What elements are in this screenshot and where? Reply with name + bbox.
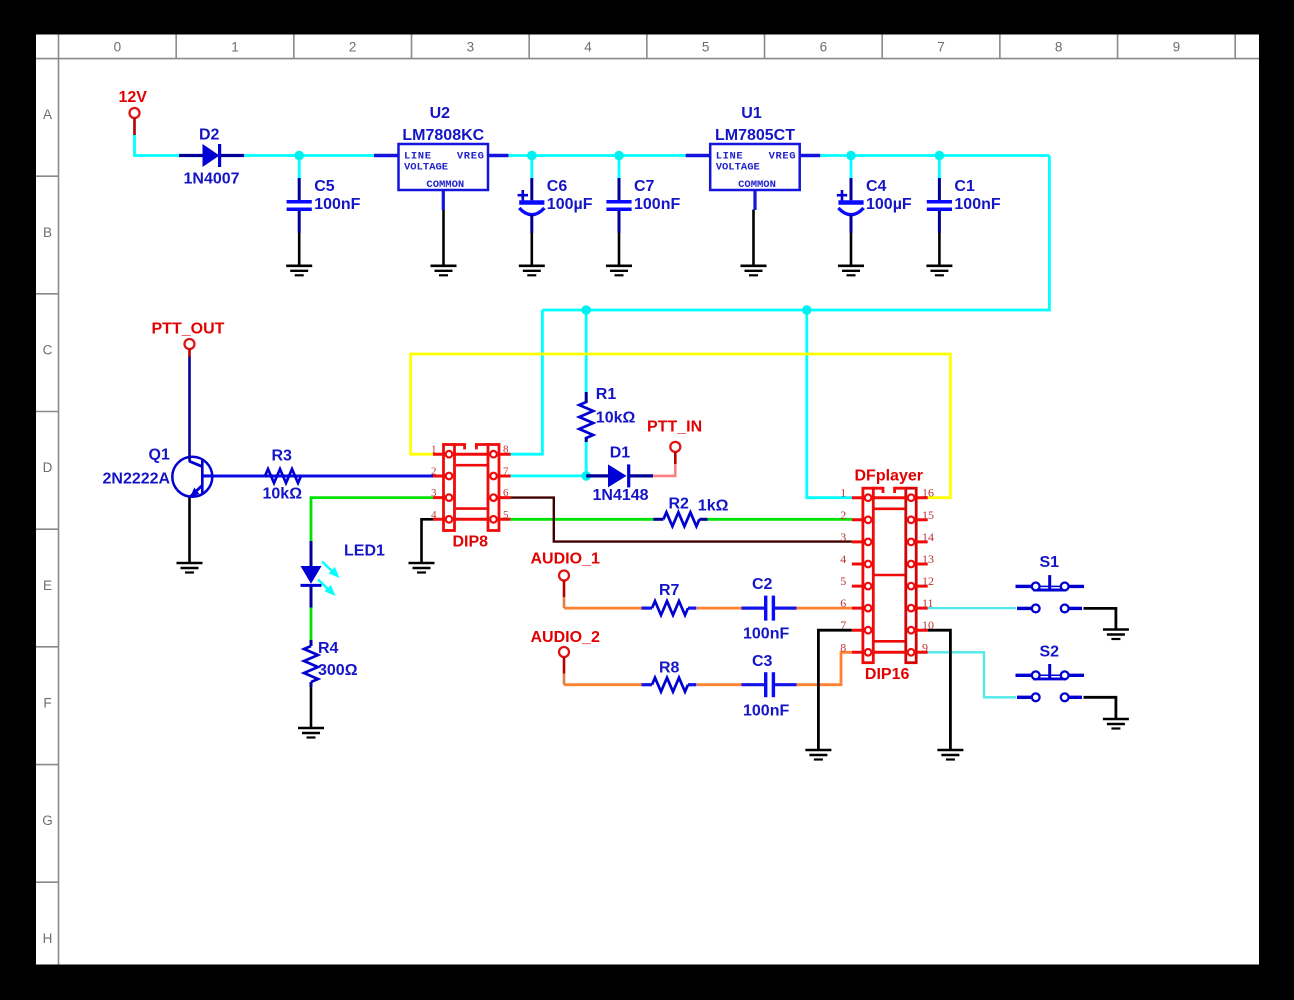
svg-text:2: 2 (431, 466, 437, 478)
terminal PTT_IN (670, 442, 680, 452)
svg-text:1: 1 (840, 486, 846, 500)
AUDIO_1 terminal lead (563, 581, 566, 598)
terminal AUDIO_2 (559, 647, 569, 657)
svg-text:PTT_IN: PTT_IN (647, 419, 702, 436)
wire DIP8 pin4 to ground (black) (422, 519, 434, 563)
PTT_OUT terminal lead (188, 349, 191, 357)
wire C6 to ground (black) (530, 233, 533, 266)
resistor R4 leads (310, 640, 313, 646)
DIP8 pin 2 lead (433, 475, 450, 478)
wire PTT_IN drop (salmon) (653, 463, 675, 476)
wire DFplayer pin 9 to S2 (light cyan) (928, 652, 1016, 697)
junction DFplayer pin1 drop node (802, 305, 812, 315)
svg-text:S1: S1 (1040, 554, 1060, 571)
wire R7 to C2 (orange) (697, 607, 742, 610)
wire D2 cathode to C5 junction (cyan) (244, 154, 299, 157)
resistor R7 leads (642, 606, 653, 609)
DIP8 pin 1 lead (433, 453, 450, 456)
wire R3 to DIP8 pin2 (blue) (202, 475, 433, 478)
wire S1 to ground (black) (1084, 608, 1116, 629)
resistor R1 zigzag (579, 402, 593, 438)
svg-text:15: 15 (922, 508, 934, 522)
capacitor C4 100&#181;F (polarized) (837, 178, 912, 233)
capacitor C6 100&#181;F (polarized) (518, 178, 593, 233)
DFplayer pin 8 lead (852, 651, 869, 654)
resistor R2 leads (653, 518, 663, 521)
DFplayer pin 2 lead (852, 518, 869, 521)
svg-text:C6: C6 (547, 178, 568, 195)
wire DFplayer pin7 to ground (black) (818, 630, 851, 750)
svg-text:13: 13 (922, 552, 934, 566)
svg-text:U1: U1 (741, 105, 762, 122)
wire C1 stub (cyan) (938, 156, 941, 179)
ground C1 (926, 266, 952, 276)
wire drop to DIP8 pin 8 (cyan) (508, 310, 543, 454)
svg-text:R7: R7 (659, 582, 680, 599)
svg-text:H: H (43, 931, 53, 946)
U1 COMMON lead (753, 190, 756, 210)
svg-text:VOLTAGE: VOLTAGE (716, 161, 760, 173)
svg-text:12V: 12V (119, 89, 148, 106)
svg-text:C: C (43, 342, 53, 357)
12V terminal lead (133, 118, 136, 135)
DFplayer pin 9 lead (910, 651, 928, 654)
svg-text:10kΩ: 10kΩ (263, 485, 303, 502)
svg-text:R1: R1 (596, 386, 617, 403)
svg-text:11: 11 (922, 596, 934, 610)
ground C7 (606, 266, 632, 276)
DFplayer pin 11 lead (910, 607, 928, 610)
svg-text:DIP16: DIP16 (865, 666, 910, 683)
ground DIP8 pin4 (409, 563, 435, 573)
junction U2 out / C6 node (527, 151, 537, 161)
svg-text:6: 6 (820, 40, 828, 55)
junction C7 node (614, 151, 624, 161)
svg-text:S2: S2 (1040, 644, 1060, 661)
wire 12V to rail (cyan) (135, 134, 180, 156)
svg-text:U2: U2 (430, 105, 451, 122)
ground U2 (431, 266, 457, 276)
svg-text:PTT_OUT: PTT_OUT (152, 321, 225, 338)
capacitor C5 100nF (287, 178, 361, 233)
wire Q1 emitter to ground (black) (188, 497, 191, 564)
svg-text:0: 0 (114, 40, 122, 55)
svg-text:LM7808KC: LM7808KC (402, 127, 484, 144)
junction R1 bottom / D1 node (581, 471, 591, 481)
svg-text:C7: C7 (634, 178, 655, 195)
wire DIP8 pin 7 to D1 node (cyan) (511, 474, 587, 477)
svg-text:C2: C2 (752, 576, 773, 593)
AUDIO_2 terminal lead (563, 657, 566, 674)
svg-text:Q1: Q1 (149, 447, 170, 464)
DFplayer pin 10 lead (910, 629, 928, 632)
svg-text:COMMON: COMMON (426, 179, 464, 191)
wire C3 to DFplayer pin8 (orange) (797, 652, 852, 684)
wire S2 to ground (black) (1084, 697, 1116, 719)
svg-text:1N4007: 1N4007 (184, 171, 240, 188)
switch S1 (1016, 554, 1085, 612)
DFplayer pin 4 lead (852, 563, 869, 566)
wire C6 stub (cyan) (530, 156, 533, 179)
resistor R4 zigzag (304, 646, 318, 682)
junction D2/C5 node (294, 151, 304, 161)
IC socket DIP8 body (444, 445, 500, 531)
voltage regulator U1 LM7805CT (710, 105, 800, 191)
svg-text:C1: C1 (954, 178, 975, 195)
svg-text:9: 9 (1173, 40, 1181, 55)
ground S1 (1103, 630, 1129, 640)
wire C1 to ground (black) (938, 233, 941, 266)
svg-text:7: 7 (840, 618, 846, 632)
IC socket DIP16 body (863, 488, 916, 663)
ground C4 (838, 266, 864, 276)
DFplayer pin 12 lead (910, 585, 928, 588)
svg-text:1: 1 (431, 444, 437, 456)
capacitor C3 100nF (742, 653, 797, 720)
wire DFplayer pin 11 to S1 (light cyan) (928, 607, 1016, 609)
DFplayer pin 5 lead (852, 585, 869, 588)
wire DIP8 pin6 to DFplayer pin3 (maroon) (511, 498, 852, 542)
DIP8 pin 8 lead (492, 453, 511, 456)
U2 output lead (488, 154, 509, 157)
DFplayer pin 6 lead (852, 607, 869, 610)
terminal AUDIO_1 (559, 571, 569, 581)
svg-text:9: 9 (922, 640, 928, 654)
svg-text:COMMON: COMMON (738, 179, 776, 191)
wire C5 stub (cyan) (298, 156, 301, 179)
svg-text:8: 8 (503, 444, 509, 456)
svg-text:LED1: LED1 (344, 543, 385, 560)
capacitor C2 100nF (742, 576, 797, 643)
voltage regulator U2 LM7808KC (399, 105, 489, 191)
wire U1 COMMON to ground (black) (752, 210, 755, 266)
svg-text:F: F (43, 695, 51, 710)
DIP8 pin 6 lead (492, 496, 511, 499)
DFplayer pin 7 lead (852, 629, 869, 632)
wire C2 to DFplayer pin6 (orange) (797, 607, 852, 610)
ground DFplayer pin10 (937, 750, 963, 760)
svg-text:14: 14 (922, 530, 934, 544)
DIP8 pin 7 lead (492, 475, 511, 478)
svg-text:5: 5 (840, 574, 846, 588)
wire C4 stub (cyan) (850, 156, 853, 179)
wire PTT_OUT to Q1 collector (navy) (188, 356, 191, 457)
svg-text:100µF: 100µF (547, 196, 593, 213)
ground U1 (741, 266, 767, 276)
svg-text:VOLTAGE: VOLTAGE (404, 161, 448, 173)
DFplayer pin 3 lead (852, 540, 869, 543)
wire node to R1 top (cyan) (585, 310, 588, 392)
wire C4 to ground (black) (850, 233, 853, 266)
svg-text:3: 3 (467, 40, 475, 55)
svg-text:C4: C4 (866, 178, 887, 195)
DIP8 pin 5 lead (492, 518, 511, 521)
junction C4 node (846, 151, 856, 161)
U2 COMMON lead (442, 190, 445, 210)
wire C7 to ground (black) (618, 233, 621, 266)
capacitor C7 100nF (606, 178, 680, 233)
DIP8 pin 4 lead (433, 518, 450, 521)
wire DFplayer pin10 to ground (black) (928, 630, 951, 750)
wire R2 to DFplayer pin2 (green) (708, 518, 852, 521)
transistor Q1 2N2222A (103, 447, 214, 498)
svg-text:1: 1 (231, 40, 239, 55)
wire yellow net DIP8 pin1 to DFplayer pin16 (411, 354, 951, 498)
svg-text:R3: R3 (272, 448, 293, 465)
svg-text:C3: C3 (752, 653, 773, 670)
svg-text:3: 3 (431, 487, 437, 499)
resistor R8 zigzag (652, 678, 688, 692)
wire R4 to ground (black) (310, 686, 313, 728)
PTT_IN terminal lead (674, 452, 677, 464)
DFplayer pin 14 lead (910, 540, 928, 543)
svg-text:4: 4 (584, 40, 592, 55)
wire 5V rail right drop (cyan) (542, 156, 1049, 311)
svg-text:8: 8 (1055, 40, 1063, 55)
DFplayer pin 15 lead (910, 518, 928, 521)
svg-text:R4: R4 (318, 640, 339, 657)
DFplayer pin 1 lead (852, 496, 869, 499)
wire U2 output rail segment (cyan) (509, 154, 690, 157)
diode D2 1N4007 (179, 126, 244, 187)
resistor R7 zigzag (652, 601, 688, 615)
svg-text:R2: R2 (669, 495, 690, 512)
resistor R2 zigzag (663, 512, 699, 526)
diode D1 1N4148 (586, 445, 653, 505)
wire DIP8 pin3 to LED1 (green) (311, 498, 433, 542)
svg-text:2: 2 (349, 40, 357, 55)
svg-text:5: 5 (503, 509, 509, 521)
svg-text:100µF: 100µF (866, 196, 912, 213)
wire R8 to C3 (orange) (697, 683, 742, 686)
svg-text:D: D (43, 460, 53, 475)
svg-text:8: 8 (840, 640, 846, 654)
resistor R3 zigzag (265, 469, 301, 483)
svg-text:16: 16 (922, 486, 934, 500)
svg-text:VREG: VREG (457, 150, 485, 162)
resistor R1 leads (585, 392, 588, 403)
DIP8 pin 3 lead (433, 496, 450, 499)
svg-text:2: 2 (840, 508, 846, 522)
svg-text:300Ω: 300Ω (318, 662, 358, 679)
svg-text:DFplayer: DFplayer (855, 468, 923, 485)
U2 input lead (374, 154, 399, 157)
switch S2 (1016, 644, 1085, 702)
svg-text:B: B (43, 225, 52, 240)
svg-text:C5: C5 (314, 178, 335, 195)
svg-text:AUDIO_2: AUDIO_2 (531, 629, 600, 646)
svg-text:A: A (43, 107, 52, 122)
ground C6 (519, 266, 545, 276)
svg-text:4: 4 (840, 552, 846, 566)
wire U2 COMMON to ground (black) (442, 210, 445, 266)
svg-text:AUDIO_1: AUDIO_1 (531, 551, 600, 568)
U1 input lead (686, 154, 711, 157)
LED LED1 (301, 541, 340, 608)
wire C7 stub (cyan) (618, 156, 621, 179)
svg-text:100nF: 100nF (743, 702, 789, 719)
svg-text:1kΩ: 1kΩ (698, 497, 729, 514)
svg-text:100nF: 100nF (954, 196, 1000, 213)
svg-text:D1: D1 (610, 445, 631, 462)
wire R1 bottom to D1 node (cyan) (585, 438, 588, 476)
svg-text:E: E (43, 578, 52, 593)
U1 output lead (800, 154, 821, 157)
svg-text:100nF: 100nF (314, 196, 360, 213)
svg-text:12: 12 (922, 574, 934, 588)
svg-text:4: 4 (431, 509, 437, 521)
wire C5 junction to U2 input (cyan) (299, 154, 374, 157)
ground C5 (286, 266, 312, 276)
wire DIP8 pin5 to R2 (green) (511, 518, 654, 521)
wire AUDIO_1 to R7 (orange) (564, 607, 642, 610)
wire node to DFplayer pin 1 (cyan) (807, 310, 852, 498)
svg-text:5: 5 (702, 40, 710, 55)
svg-text:VREG: VREG (769, 150, 797, 162)
svg-text:6: 6 (503, 487, 509, 499)
svg-text:G: G (42, 813, 53, 828)
capacitor C1 100nF (927, 178, 1001, 233)
wire U1 output rail segment (cyan) (818, 154, 1050, 157)
svg-text:7: 7 (503, 466, 509, 478)
svg-text:7: 7 (937, 40, 945, 55)
ground DFplayer pin7 (805, 750, 831, 760)
wire AUDIO_2 to R8 (orange) (564, 683, 642, 686)
DFplayer pin 16 lead (910, 496, 928, 499)
svg-text:1N4148: 1N4148 (593, 487, 649, 504)
svg-text:10kΩ: 10kΩ (596, 409, 636, 426)
junction C1 node (935, 151, 945, 161)
terminal 12V (130, 108, 140, 118)
svg-text:3: 3 (840, 530, 846, 544)
svg-text:100nF: 100nF (743, 626, 789, 643)
svg-text:R8: R8 (659, 659, 680, 676)
wire LED1 to R4 (green) (310, 607, 313, 640)
svg-text:10: 10 (922, 618, 934, 632)
svg-text:100nF: 100nF (634, 196, 680, 213)
svg-text:DIP8: DIP8 (453, 534, 489, 551)
wire C5 to ground (black) (298, 233, 301, 266)
resistor R8 leads (642, 683, 653, 686)
terminal PTT_OUT (185, 339, 195, 349)
ground Q1 emitter (177, 563, 203, 573)
svg-text:6: 6 (840, 596, 846, 610)
svg-text:LM7805CT: LM7805CT (715, 127, 795, 144)
svg-text:2N2222A: 2N2222A (103, 471, 171, 488)
ground R4 (298, 728, 324, 738)
ground S2 (1103, 719, 1129, 729)
DFplayer pin 13 lead (910, 563, 928, 566)
junction R1 top node (581, 305, 591, 315)
svg-text:D2: D2 (199, 126, 220, 143)
